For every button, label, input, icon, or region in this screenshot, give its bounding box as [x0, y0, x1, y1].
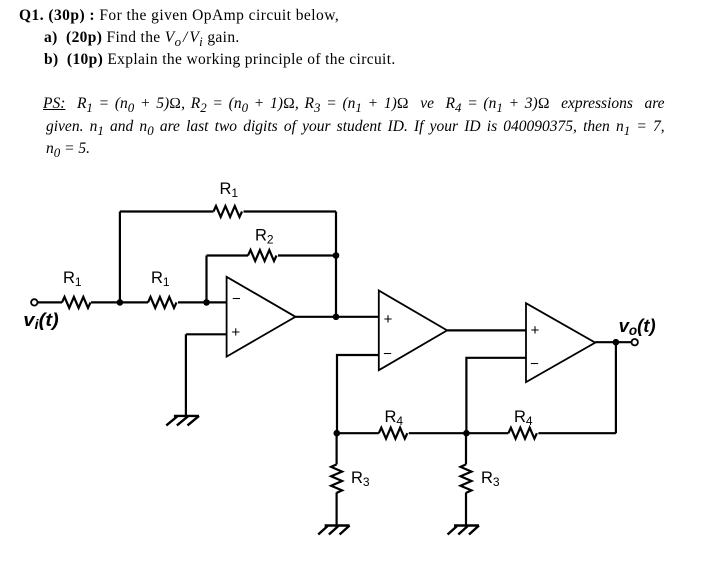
- feedback vertical wire at x=336: [335, 212, 337, 317]
- U3 non-inverting pin label +: [531, 322, 540, 339]
- svg-text:−: −: [383, 345, 392, 362]
- output terminal node vo: [632, 339, 638, 345]
- op-amp U2: [379, 291, 447, 371]
- svg-text:R1: R1: [151, 269, 170, 289]
- wire node C down to R3: [336, 433, 338, 464]
- junction dot U1 output: [333, 314, 340, 321]
- junction dot R2/feedback vertical: [333, 252, 340, 259]
- ground (R3 right): [448, 526, 479, 535]
- svg-text:R2: R2: [255, 227, 274, 247]
- question heading line 1: [19, 7, 339, 25]
- junction dot node D (R3 right): [463, 430, 470, 437]
- ground (R3 left): [318, 526, 349, 535]
- svg-text:R3: R3: [481, 469, 500, 489]
- svg-text:R4: R4: [385, 408, 404, 428]
- node B junction dot (inverting input node): [203, 299, 210, 306]
- wire vo node down to R4 row: [615, 342, 617, 433]
- wire R3 right to ground: [465, 493, 467, 526]
- R2 row left wire: [207, 254, 249, 256]
- label R2: [255, 227, 274, 247]
- resistor R1 (input series): [62, 297, 90, 308]
- label R4 (left): [385, 408, 404, 428]
- U3 inverting pin label -: [530, 355, 539, 372]
- junction dot node C (R3 left): [334, 430, 341, 437]
- wire R3 left to ground: [336, 493, 338, 526]
- svg-text:vo(t): vo(t): [619, 315, 656, 338]
- label R1 (input): [63, 269, 82, 289]
- label R1 (second series): [151, 269, 170, 289]
- label R3 (left): [351, 469, 370, 489]
- resistor R1 (second series): [148, 297, 176, 308]
- question line a: [44, 29, 240, 50]
- svg-text:vi(t): vi(t): [23, 310, 58, 332]
- svg-text:−: −: [232, 291, 241, 308]
- op-amp U3: [526, 303, 595, 382]
- PS paragraph line 1: [43, 95, 665, 116]
- resistor R4 (left): [379, 428, 408, 439]
- label vi(t): [23, 310, 58, 332]
- wire U1 + input to ground stub: [186, 333, 227, 335]
- svg-text:−: −: [530, 355, 539, 372]
- question line b: [44, 51, 396, 69]
- wire input to R1a: [38, 301, 63, 303]
- wire R1a to node A and on to R1b: [91, 301, 148, 303]
- wire node D down to R3: [465, 433, 467, 464]
- svg-text:R1: R1: [63, 269, 82, 289]
- U2 non-inverting pin label +: [384, 311, 393, 328]
- node A junction dot: [117, 299, 124, 306]
- wire R1b to op-amp U1 inverting input: [178, 301, 227, 303]
- R4 row wire segment 2: [409, 432, 509, 434]
- R4 row wire segment 3: [538, 432, 616, 434]
- svg-text:R3: R3: [351, 469, 370, 489]
- svg-text:R4: R4: [514, 408, 533, 428]
- vertical wire to ground 1: [185, 334, 187, 415]
- U2 inverting pin label -: [383, 345, 392, 362]
- input terminal node vi: [31, 299, 37, 305]
- op-amp U1: [227, 277, 296, 357]
- PS paragraph line 2: [46, 118, 665, 139]
- resistor R3 (right, vertical): [461, 464, 472, 493]
- R4 row wire segment 1: [337, 432, 379, 434]
- U1 inverting pin label -: [232, 291, 241, 308]
- resistor R3 (left, vertical): [331, 464, 342, 493]
- U1 non-inverting pin label +: [231, 324, 240, 341]
- resistor R2: [248, 250, 277, 261]
- svg-text:+: +: [531, 322, 540, 339]
- wire U3 output to terminal: [595, 341, 631, 343]
- wire U1 output to U2 + input: [296, 316, 379, 318]
- wire node B up to R2 row: [205, 256, 207, 303]
- ground (U1 + input): [166, 416, 199, 426]
- label R1 (top feedback): [220, 180, 239, 200]
- label R3 (right): [481, 469, 500, 489]
- resistor R4 (right): [508, 428, 537, 439]
- wire U2 output to U3 + input: [447, 329, 526, 331]
- svg-text:+: +: [384, 311, 393, 328]
- junction dot output node: [613, 339, 620, 346]
- R2 row right wire: [278, 254, 336, 256]
- top feedback rail left segment: [120, 210, 214, 212]
- PS paragraph line 3: [46, 140, 90, 161]
- wire U3 inverting input feedback: [466, 358, 526, 433]
- wire U2 inverting input feedback: [337, 355, 379, 433]
- resistor R1 (top feedback): [214, 206, 242, 217]
- svg-text:R1: R1: [220, 180, 239, 200]
- label R4 (right): [514, 408, 533, 428]
- label vo(t): [619, 315, 656, 338]
- wire node A up to top rail: [119, 212, 121, 303]
- svg-text:+: +: [231, 324, 240, 341]
- top feedback rail right segment: [244, 210, 337, 212]
